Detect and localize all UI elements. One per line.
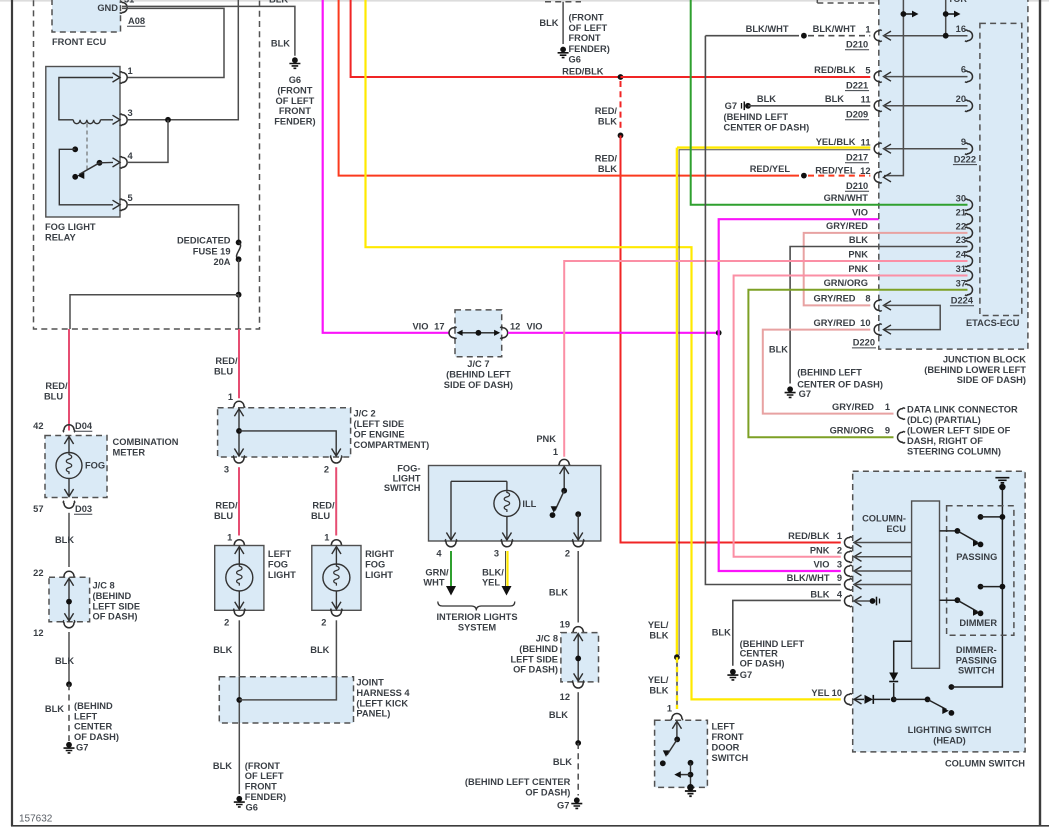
svg-text:GRN/ORG: GRN/ORG [830,426,874,436]
joint harness internal [236,677,336,723]
label RED/BLU right fog [311,501,335,521]
label PNK 31 [848,264,868,274]
wire relay pin3 to top [127,0,238,120]
connector label D220 [852,338,876,348]
arrow tap 1 [901,11,919,18]
svg-text:(HEAD): (HEAD) [933,735,966,745]
svg-text:1: 1 [865,25,870,35]
page top edge strip [0,0,1049,2]
svg-text:OF DASH): OF DASH) [740,658,785,668]
junction BLK/WHT [801,33,807,39]
svg-text:BLU: BLU [44,391,63,401]
lighting switch diode 2 to ECU [889,641,911,699]
label BLK/YEL [482,567,504,587]
svg-text:31: 31 [124,0,134,5]
junction block pin 8 D224 [865,294,891,311]
ETACS pin 22 [956,221,973,238]
junction below fuse [236,292,242,298]
connector label A08 [127,16,145,26]
wire pin11b to pin9 [884,148,968,150]
svg-text:GND: GND [97,3,118,13]
left fog light label [268,549,296,580]
junction RED/YEL [801,173,807,179]
ground G7 left chain [64,742,75,753]
label YEL/BLK [816,137,856,147]
svg-text:(LEFT SIDE: (LEFT SIDE [354,419,405,429]
svg-text:1: 1 [228,392,233,402]
D222 pin 9 bracket [965,143,973,155]
svg-text:BLK: BLK [769,345,788,355]
svg-text:PNK: PNK [848,264,868,274]
J/C7 internal bus [457,330,501,336]
svg-text:J/C 2: J/C 2 [354,409,376,419]
J/C7 text block [444,359,513,390]
ETACS pin 21 [956,208,973,225]
svg-text:RIGHT: RIGHT [365,549,394,559]
lighting switch blade [894,697,955,716]
DLC pin 1 bracket [898,408,906,420]
svg-text:RELAY: RELAY [45,233,76,243]
svg-text:COMPARTMENT): COMPARTMENT) [354,440,430,450]
svg-text:G7: G7 [557,801,569,811]
right fog light box [312,546,361,611]
interior lights system label [436,612,517,632]
svg-text:INTERIOR LIGHTS: INTERIOR LIGHTS [436,612,517,622]
svg-text:(FRONT: (FRONT [569,13,604,23]
svg-text:LEFT SIDE: LEFT SIDE [93,601,141,611]
svg-text:WHT: WHT [423,578,444,588]
fog switch pin 1 bracket [558,459,570,467]
wire BLK J/C8b down [577,692,579,743]
fuse 19 label [177,236,231,267]
label BLK center G6 [539,18,558,28]
wire BLK column to G7 [733,600,841,665]
left fog light pin 2 bracket [234,609,246,617]
svg-text:GRN/: GRN/ [425,567,449,577]
svg-text:OF DASH): OF DASH) [525,788,570,798]
svg-text:PNK: PNK [848,249,868,259]
fog switch pin 4 bracket [445,539,457,547]
combination meter dashed box [45,436,107,498]
J/C7 pin 17 bracket [449,327,457,339]
left fog light pin 1 bracket [234,540,246,548]
svg-text:BLK: BLK [271,39,290,49]
label RED/BLK vertical [595,154,618,174]
svg-text:1: 1 [324,533,329,543]
svg-text:(BEHIND: (BEHIND [74,701,113,711]
wire feed 1 vertical [884,0,903,176]
svg-text:(BEHIND LEFT: (BEHIND LEFT [797,368,862,378]
svg-text:COLUMN SWITCH: COLUMN SWITCH [945,758,1025,768]
J/C2 text block [354,409,430,450]
label PNK [536,434,556,444]
wire VIO from top [323,0,450,333]
label BLK left fog [213,645,232,655]
relay pin 4 bracket [113,157,128,169]
junction block pin 5 D221 [845,65,891,90]
svg-text:G7: G7 [725,101,737,111]
svg-text:3: 3 [837,560,842,570]
ground G6 left text [274,75,315,127]
svg-text:VIO: VIO [852,208,868,218]
svg-text:DASH, RIGHT OF: DASH, RIGHT OF [907,436,983,446]
front ECU label [52,37,107,47]
front ECU pin 31 bracket [120,2,128,14]
svg-text:(BEHIND: (BEHIND [93,591,132,601]
pin 6 number [961,65,966,75]
svg-text:YEL/: YEL/ [648,675,669,685]
J/C8 internal [64,578,73,621]
label GRN/ORG 37 [824,278,868,288]
svg-text:GRN/ORG: GRN/ORG [824,278,868,288]
ground G6 center text [569,13,610,65]
label BLK dashed mid [553,757,572,767]
door switch ground bars [685,791,696,796]
svg-text:D03: D03 [75,504,92,514]
svg-text:CENTER: CENTER [74,722,113,732]
D222 pin 6 bracket [965,71,973,83]
column pin 1 internal [854,542,912,544]
ETACS-ECU dashed box [980,23,1022,315]
svg-text:SYSTEM: SYSTEM [458,622,496,632]
svg-text:(DLC) (PARTIAL): (DLC) (PARTIAL) [907,415,981,425]
wire BLK meter to J/C8 [68,513,70,567]
label BLK/WHT right [813,24,856,34]
svg-text:CENTER: CENTER [740,649,779,659]
label RED/BLK [562,67,604,77]
meter FOG lamp [56,437,82,497]
svg-text:6: 6 [961,65,966,75]
label 2 left fog light [224,618,229,628]
svg-text:FRONT: FRONT [279,106,311,116]
sheet number 157632 [19,814,53,825]
J/C2 pin 1 bracket [233,401,245,408]
svg-text:D210: D210 [846,40,868,50]
svg-text:RED/: RED/ [215,356,238,366]
label 1 J/C2 [228,392,233,402]
G7 mid text [465,777,571,797]
svg-text:(LOWER LEFT SIDE OF: (LOWER LEFT SIDE OF [907,426,1011,436]
wire BLK J/C8 down [68,632,70,684]
wire BLK left fog light [238,620,240,677]
junction block pin 11 D209 [845,95,891,120]
junction RED/BLK mid [618,133,624,139]
DLC pin 9 bracket [898,432,906,444]
svg-text:DATA LINK CONNECTOR: DATA LINK CONNECTOR [907,405,1018,415]
svg-text:(LEFT KICK: (LEFT KICK [356,698,408,708]
label G7 mid [557,801,569,811]
wire BLK dashed to G7 mid [577,743,579,796]
svg-text:LIGHT: LIGHT [268,570,296,580]
ETACS-ECU label [966,318,1020,328]
label BLK fog switch [549,588,568,598]
svg-text:FOG LIGHT: FOG LIGHT [45,222,96,232]
svg-text:BLK: BLK [649,685,668,695]
wire RED/BLU left fog [238,467,240,535]
dimmer contact [978,584,1006,590]
meter pin 42 bracket [63,425,75,433]
left front door switch box [655,720,708,787]
svg-text:ETACS-ECU: ETACS-ECU [966,318,1020,328]
svg-text:LEFT SIDE: LEFT SIDE [510,654,558,664]
wire BLK dashed to G7 left [68,684,70,741]
svg-text:YEL/: YEL/ [648,620,669,630]
svg-text:2: 2 [224,618,229,628]
svg-text:OF DASH): OF DASH) [513,665,558,675]
svg-text:12: 12 [860,166,870,176]
svg-text:VIO: VIO [527,322,543,332]
svg-text:SWITCH: SWITCH [958,666,995,676]
svg-text:BLU: BLU [214,511,233,521]
svg-text:STEERING COLUMN): STEERING COLUMN) [907,447,1001,457]
fog switch pin 2 bracket [572,539,584,547]
svg-text:1: 1 [667,704,672,714]
lighting switch label [908,725,992,745]
meter pin 57 bracket [63,501,75,509]
label 1 fog switch [553,447,558,457]
label RED/BLU left fog [214,501,238,521]
svg-text:ECU: ECU [886,524,906,534]
svg-text:SIDE OF DASH): SIDE OF DASH) [957,375,1026,385]
relay pin 4 number [128,151,134,161]
svg-text:FRONT: FRONT [712,732,744,742]
label 3 [494,549,499,559]
svg-text:BLK: BLK [549,710,568,720]
svg-text:BLK: BLK [549,588,568,598]
G7 text block left [74,701,119,742]
label GRY/RED 8 [813,294,855,304]
svg-text:RED/: RED/ [45,381,68,391]
column ECU box [912,501,940,668]
svg-text:2: 2 [837,545,842,555]
wire GRN/WHT to interior lights [446,551,456,596]
svg-text:1: 1 [553,447,558,457]
junction connector J/C2 box [218,408,351,457]
label GRY/RED 10 [813,318,855,328]
label ILL [522,499,536,509]
label 12 J/C8 [33,628,43,638]
label RED/YEL left [750,164,791,174]
label BLK meter [55,535,74,545]
fog-light switch box [429,466,601,542]
svg-text:D209: D209 [846,110,868,120]
svg-text:BLK: BLK [553,757,572,767]
page right border [1039,0,1041,826]
right fog light lamp [323,547,350,610]
junction block pin 10 D220 [860,318,891,335]
svg-text:FRONT: FRONT [569,33,601,43]
svg-text:157632: 157632 [19,814,53,825]
svg-text:CENTER OF DASH): CENTER OF DASH) [797,379,883,389]
svg-text:3: 3 [494,549,499,559]
svg-text:VIO: VIO [412,322,428,332]
J/C8b pin 12 bracket [572,681,584,689]
svg-text:YEL/BLK: YEL/BLK [816,137,856,147]
wire YEL from top [366,0,841,699]
relay pin 3 number [128,108,133,118]
passing contact [978,514,1006,520]
svg-text:G6: G6 [569,54,581,64]
svg-text:PNK: PNK [810,545,830,555]
combination meter label [113,437,179,457]
label VIO 21 [852,208,868,218]
svg-text:2: 2 [565,549,570,559]
svg-text:4: 4 [837,590,843,600]
svg-text:LIGHT: LIGHT [393,473,421,483]
G6 bottom text [245,761,286,813]
ground G6 left [289,57,300,68]
DLC text block [907,405,1018,457]
label BLK column [712,628,731,638]
label BLK bottom [213,761,232,771]
ETACS pin 31 [956,264,973,281]
wire RED/YEL from top [339,0,799,176]
wire PNK pin24 [564,261,967,457]
svg-text:FRONT ECU: FRONT ECU [52,37,107,47]
svg-text:G7: G7 [740,670,752,680]
svg-text:9: 9 [885,426,890,436]
dimmer label [959,618,997,628]
svg-text:24: 24 [956,250,967,260]
left fog light lamp [226,547,253,610]
svg-text:OF LEFT: OF LEFT [569,23,608,33]
svg-text:BLK: BLK [269,0,288,5]
svg-text:(FRONT: (FRONT [277,85,312,95]
svg-text:D210: D210 [846,181,868,191]
svg-text:BLK: BLK [310,645,329,655]
right fog light label [365,549,394,580]
svg-text:D220: D220 [853,338,875,348]
wire pin5 to pin6 [884,76,968,78]
svg-text:OF ENGINE: OF ENGINE [354,429,405,439]
wire BLK right fog light [335,620,337,677]
pin GND label [97,3,118,13]
svg-text:YEL: YEL [482,578,500,588]
dashed stub above center G6 [545,1,581,3]
svg-text:FENDER): FENDER) [245,792,286,802]
label BLK 23 [849,235,868,245]
ground G6 bottom [234,796,245,807]
svg-text:FOG: FOG [268,560,288,570]
page left border [11,0,13,826]
front ECU box [52,0,121,32]
svg-text:METER: METER [113,447,146,457]
relay blade to pin 4 [100,161,114,163]
wire VIO vertical branch [719,219,968,571]
svg-text:22: 22 [956,221,966,231]
door switch contact arm [660,721,682,766]
svg-text:10: 10 [860,318,870,328]
D222 pin 20 bracket [965,100,973,112]
svg-text:COLUMN-: COLUMN- [862,514,906,524]
ETACS pin 23 [956,235,973,252]
svg-text:RED/: RED/ [312,501,335,511]
svg-text:BLK: BLK [598,116,617,126]
pin 20 number [956,94,966,104]
svg-text:D04: D04 [75,421,93,431]
relay pin 5 bracket [113,199,128,211]
svg-text:BLK: BLK [757,94,776,104]
svg-text:37: 37 [956,278,966,288]
relay switch blade [72,160,102,180]
svg-text:A08: A08 [128,16,145,26]
svg-text:OF LEFT: OF LEFT [245,771,284,781]
wire BLK to G6 bottom [238,723,240,794]
label GRN/ORG 9 DLC [830,426,890,436]
svg-text:19: 19 [560,620,570,630]
svg-text:PASSING: PASSING [956,552,997,562]
J/C7 pin 12 bracket [500,327,508,339]
page bottom border [11,825,1049,827]
junction VIO [716,330,722,336]
left fog light box [215,546,264,611]
passing label [956,552,997,562]
wire PNK pin31 [734,276,968,557]
label BLK 11 right [825,94,844,104]
fog switch contact arm [550,467,569,518]
svg-text:D217: D217 [846,153,868,163]
svg-text:LEFT: LEFT [712,722,736,732]
label GRN/WHT fog switch [423,567,449,587]
pin 16 number [956,24,966,34]
dimmer switch [940,597,984,616]
ETACS pin 30 [956,193,973,210]
svg-text:OF DASH): OF DASH) [93,612,138,622]
label 2 right fog light [321,618,326,628]
label 1 right fog light [324,533,329,543]
svg-text:30: 30 [956,193,966,203]
J/C8 pin 12 bracket [63,620,75,628]
svg-text:(BEHIND: (BEHIND [519,644,558,654]
junction lighting switch [891,697,897,703]
label TOR cut top [948,0,967,4]
wire BLK to pin 11 [748,105,870,107]
dimmer-passing dashed box [947,506,1014,635]
svg-text:BLK: BLK [712,628,731,638]
svg-text:2: 2 [324,465,329,475]
label BLK right fog [310,645,329,655]
svg-text:LEFT: LEFT [268,549,292,559]
column switch label [945,758,1025,768]
svg-text:COMBINATION: COMBINATION [113,437,179,447]
connector label D224 [950,296,974,306]
svg-text:LEFT: LEFT [74,711,98,721]
label 3 J/C2 [224,465,229,475]
svg-text:20: 20 [956,94,966,104]
svg-text:FENDER): FENDER) [569,44,610,54]
svg-text:J/C 7: J/C 7 [467,359,489,369]
ground G7 column [727,669,738,680]
wire YEL/BLK dashed [676,657,678,709]
J/C2 pin 3 bracket [233,456,245,464]
label G7 left [76,743,88,753]
right fog light pin 2 bracket [331,609,343,617]
svg-text:OF DASH): OF DASH) [74,732,119,742]
ETACS pin 37 [956,278,973,295]
svg-text:9: 9 [837,573,842,583]
svg-text:BLK: BLK [649,630,668,640]
column ECU pin 2 [810,545,862,562]
svg-text:LIGHTING SWITCH: LIGHTING SWITCH [908,725,992,735]
cut dashed box top left of junction block [817,0,879,3]
svg-text:BLU: BLU [214,366,233,376]
chassis ground column top [995,478,1009,490]
svg-text:12: 12 [560,692,570,702]
svg-text:RED/BLK: RED/BLK [814,65,856,75]
label RED/BLU J/C2 [214,356,238,376]
svg-text:BLK/: BLK/ [482,567,504,577]
svg-text:(BEHIND LOWER LEFT: (BEHIND LOWER LEFT [924,365,1026,375]
